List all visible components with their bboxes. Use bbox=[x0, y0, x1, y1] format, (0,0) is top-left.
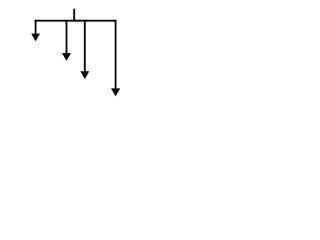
arrowhead 1 bbox=[31, 34, 40, 42]
wire: arrow 3 shaft bbox=[84, 20, 86, 73]
wire: arrow 2 shaft bbox=[66, 20, 68, 55]
wire: arrow 4 shaft bbox=[115, 20, 117, 90]
arrowhead 3 bbox=[80, 71, 89, 79]
wire: upper stub at node T bbox=[73, 9, 75, 21]
arrowhead 4 bbox=[111, 88, 120, 96]
arrowhead 2 bbox=[62, 53, 71, 61]
wire: arrow 1 shaft bbox=[35, 20, 37, 35]
wire: horizontal bus bbox=[35, 20, 117, 22]
